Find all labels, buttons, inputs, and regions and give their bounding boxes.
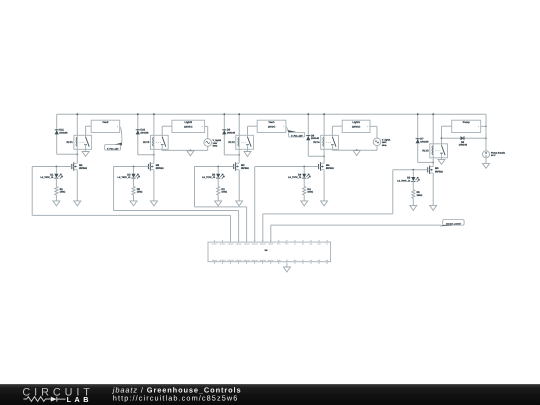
ground relay	[82, 152, 89, 157]
diode D7	[416, 138, 420, 140]
relay RLY1	[74, 135, 92, 149]
wire sensor_power run	[270, 225, 272, 242]
source V_light1	[373, 138, 381, 146]
pin bottom 14 SD	[318, 262, 320, 264]
wire source to ground	[323, 171, 325, 201]
svg-text:D10: D10	[140, 129, 145, 132]
wire relay coil to drain	[238, 149, 240, 162]
svg-text:IRF530: IRF530	[435, 170, 444, 173]
junction	[432, 113, 434, 115]
svg-text:RLY5: RLY5	[422, 150, 429, 153]
ground M4 source	[321, 201, 328, 206]
wire resistor to ground	[217, 195, 219, 201]
wire flyback branch D8	[307, 114, 309, 156]
pin top 10 RTS	[286, 240, 288, 242]
svg-text:sensor_power: sensor_power	[446, 222, 461, 225]
net flag sensor_power	[439, 223, 451, 227]
ground relay	[244, 152, 251, 157]
ground source b2	[187, 151, 194, 156]
wire switch riser to Light2	[162, 125, 172, 127]
pin top 9 RTS	[278, 240, 280, 242]
junction	[153, 113, 155, 115]
wire resistor to ground	[303, 195, 305, 201]
wire led to resistor	[55, 178, 57, 187]
source V_light2	[204, 139, 212, 147]
wire led to resistor	[217, 178, 219, 187]
pin top 11 TX	[294, 240, 296, 242]
svg-text:100Ω: 100Ω	[417, 194, 423, 197]
svg-text:V_light1: V_light1	[382, 139, 391, 142]
junction	[307, 113, 309, 115]
pin bottom 7 GPIO20	[262, 262, 264, 264]
junction	[356, 149, 358, 151]
load Light2	[172, 120, 205, 132]
LED D5	[412, 170, 414, 177]
wire gate net b5	[393, 169, 428, 171]
svg-text:1N4148: 1N4148	[227, 131, 236, 134]
wire resistor to ground b5	[412, 198, 414, 205]
pin bottom 2 GPIO13	[221, 262, 223, 264]
svg-text:120VAC: 120VAC	[184, 126, 193, 129]
wire Light1 to source	[370, 125, 377, 127]
LED D4	[303, 167, 305, 174]
pin bottom 9 GND	[278, 262, 280, 264]
pin top 1 GPIO17	[213, 240, 215, 242]
pin bottom 5 GPIO12	[246, 262, 248, 264]
wire flying lead to flag	[120, 127, 122, 143]
wire relay ground stub	[441, 158, 443, 160]
relay RLY4	[321, 135, 339, 149]
svg-text:RLY2: RLY2	[228, 141, 235, 144]
pin bottom 8 GPIO21	[270, 262, 272, 264]
diode D11	[55, 129, 59, 131]
transistor M2	[147, 164, 149, 169]
diode D10	[136, 129, 140, 131]
wire led to resistor	[303, 178, 305, 187]
wire source to ground	[432, 174, 434, 205]
load Fan2	[91, 120, 120, 132]
junction	[217, 166, 219, 168]
wire gate net	[114, 166, 149, 168]
wire gate net	[195, 166, 234, 168]
svg-text:LS_T67K_J1: LS_T67K_J1	[202, 176, 216, 179]
diode D8	[306, 135, 310, 137]
relay RLY5	[430, 144, 448, 158]
wire right rail	[485, 114, 487, 151]
svg-text:120V: 120V	[213, 142, 218, 145]
wire diode D6 run	[442, 137, 487, 139]
junction	[238, 154, 240, 156]
resistor R5	[412, 190, 415, 199]
svg-text:V_Fan_12V: V_Fan_12V	[107, 147, 119, 150]
svg-text:D11: D11	[59, 129, 64, 132]
svg-text:http://circuitlab.com/c85z5w6: http://circuitlab.com/c85z5w6	[113, 393, 239, 402]
svg-text:100Ω: 100Ω	[137, 191, 143, 194]
wire resistor to ground	[55, 195, 57, 201]
wire mcu ground	[286, 264, 288, 267]
svg-text:120VAC: 120VAC	[352, 126, 361, 129]
pin bottom 12 ID	[302, 262, 304, 264]
svg-text:LS_T67K_J1: LS_T67K_J1	[288, 176, 302, 179]
MCU U6	[208, 242, 331, 262]
wire switch riser to Pump	[441, 126, 443, 144]
ground source b4	[353, 151, 360, 156]
svg-text:100Ω: 100Ω	[307, 191, 313, 194]
wire relay coil to drain	[153, 149, 155, 162]
ground relay b5	[438, 159, 445, 164]
svg-text:V_Fan_12V: V_Fan_12V	[291, 134, 303, 137]
wire coil drop block M3	[238, 114, 240, 135]
pin bottom 3 GPIO19	[230, 262, 232, 264]
wire switch riser to Light1	[332, 125, 342, 127]
pin top 14 SDA	[318, 240, 320, 242]
pin top 7 GPIO25	[262, 240, 264, 242]
wire switch riser to Fan2	[86, 125, 92, 127]
svg-text:Fan2: Fan2	[103, 121, 109, 124]
ground M5 source	[430, 205, 437, 210]
pin top 3 GPIO27	[230, 240, 232, 242]
wire switch to source return	[161, 149, 163, 150]
svg-text:RLY4: RLY4	[313, 141, 320, 144]
wire coil drop block M5	[432, 114, 434, 144]
svg-text:LS_T67K_J1: LS_T67K_J1	[40, 176, 54, 179]
wire switch to source return	[331, 148, 333, 151]
transistor M1	[71, 164, 73, 169]
svg-text:IRF530: IRF530	[79, 167, 88, 170]
ground led	[130, 201, 137, 206]
svg-text:60Hz: 60Hz	[213, 144, 218, 147]
junction	[223, 113, 225, 115]
pin top 13 SCL	[310, 240, 312, 242]
ground M3 source	[236, 201, 243, 206]
wire switch riser	[85, 126, 87, 135]
wire led to resistor b5	[412, 181, 414, 190]
wire relay coil to drain	[76, 149, 78, 162]
svg-text:Pump: Pump	[463, 121, 470, 124]
pin top 4 GPIO22	[238, 240, 240, 242]
wire source to ground	[76, 171, 78, 201]
svg-text:12VDC: 12VDC	[268, 126, 276, 129]
diode D9	[222, 129, 226, 131]
junction	[153, 154, 155, 156]
svg-text:LS_T67K_J1: LS_T67K_J1	[117, 176, 131, 179]
wire switch riser	[331, 126, 333, 135]
junction	[238, 113, 240, 115]
junction	[137, 113, 139, 115]
relay RLY3	[151, 135, 169, 149]
wire switch riser	[161, 126, 163, 135]
junction	[323, 155, 325, 157]
pin top 15 IO	[326, 240, 328, 242]
wire relay coil to drain	[323, 149, 325, 162]
svg-text:1N4148: 1N4148	[59, 131, 68, 134]
junction	[441, 137, 443, 139]
wire resistor to ground	[133, 195, 135, 201]
svg-text:Fan1: Fan1	[269, 121, 275, 124]
svg-text:100Ω: 100Ω	[221, 191, 227, 194]
pin top 2 GPIO18	[221, 240, 223, 242]
wire coil drop block M2	[153, 114, 155, 135]
LED D1	[55, 167, 57, 174]
svg-text:IRF530: IRF530	[241, 167, 250, 170]
wire flyback branch D9	[223, 114, 225, 155]
junction	[133, 166, 135, 168]
pin top 6 GPIO24	[254, 240, 256, 242]
svg-text:Pump Supply: Pump Supply	[491, 151, 506, 154]
wire top supply bus	[57, 113, 486, 115]
ground M1 source	[74, 201, 81, 206]
junction	[56, 166, 58, 168]
svg-text:1N4148: 1N4148	[311, 137, 320, 140]
pin top 5 GPIO23	[246, 240, 248, 242]
resistor R2	[132, 186, 135, 195]
ground led	[301, 201, 308, 206]
ground MCU	[283, 267, 290, 272]
transistor M5	[427, 167, 429, 172]
svg-text:1N4148: 1N4148	[140, 131, 149, 134]
LED D3	[217, 167, 219, 174]
wire Pump to supply rail	[481, 125, 486, 127]
wire relay ground stub	[85, 149, 87, 151]
wire switch riser to Fan1	[248, 125, 258, 127]
junction	[417, 113, 419, 115]
pin bottom 4 GPIO26	[238, 262, 240, 264]
net flag V_Fan_12V b3	[287, 130, 295, 133]
load Light1	[342, 120, 370, 132]
wire flying lead to flag	[286, 127, 288, 130]
wire coil drop block M4	[323, 114, 325, 135]
wire relay ground stub	[247, 149, 249, 151]
load Fan1	[257, 120, 286, 132]
svg-text:RLY3: RLY3	[143, 141, 150, 144]
source Pump Supply	[483, 151, 490, 158]
resistor R4	[303, 186, 306, 195]
LED D2	[133, 167, 135, 174]
junction	[485, 126, 487, 128]
net flag V_Fan_12V b1	[113, 143, 122, 146]
junction	[76, 113, 78, 115]
resistor R1	[55, 186, 58, 195]
wire coil to drain	[432, 158, 434, 166]
pin top 12 RX	[302, 240, 304, 242]
wire gate net	[32, 166, 72, 168]
logo resistor-diode glyph	[23, 397, 50, 402]
pin top 8 GPIO5	[270, 240, 272, 242]
pin bottom 13 SC	[310, 262, 312, 264]
junction	[190, 150, 192, 152]
junction	[432, 162, 434, 164]
resistor R3	[217, 186, 220, 195]
ground M2 source	[150, 201, 157, 206]
ground led	[215, 201, 222, 206]
svg-text:IRF530: IRF530	[156, 167, 165, 170]
svg-text:1N4148: 1N4148	[459, 144, 468, 147]
ground led	[53, 201, 60, 206]
wire switch riser	[247, 126, 249, 135]
svg-text:RLY1: RLY1	[67, 141, 74, 144]
wire source to ground	[153, 171, 155, 201]
svg-text:Light1: Light1	[352, 121, 360, 124]
wire Light2 to source	[205, 125, 208, 127]
junction	[303, 166, 305, 168]
wire gate net	[255, 166, 319, 168]
wire coil drop block M1	[76, 114, 78, 135]
svg-text:60Hz: 60Hz	[382, 144, 387, 147]
pin bottom 11 3V3	[294, 262, 296, 264]
junction	[485, 137, 487, 139]
wire flyback branch D10	[137, 114, 139, 155]
svg-text:LAB: LAB	[67, 395, 92, 404]
wire flyback branch D11	[56, 114, 58, 154]
wire led to resistor	[133, 178, 135, 187]
junction	[323, 113, 325, 115]
ground supply b5	[483, 163, 490, 168]
svg-text:120V: 120V	[382, 141, 387, 144]
load Pump	[452, 120, 481, 132]
diode D6	[461, 136, 465, 140]
wire source to ground	[238, 171, 240, 201]
pin bottom 15 GP	[326, 262, 328, 264]
svg-text:LS_T67K_J1: LS_T67K_J1	[397, 179, 411, 182]
ground led b5	[410, 205, 417, 210]
pin bottom 10 5V	[286, 262, 288, 264]
svg-text:100Ω: 100Ω	[60, 191, 66, 194]
pin bottom 1 GPIO6	[213, 262, 215, 264]
wire flyback branch D7	[417, 114, 419, 162]
junction	[76, 153, 78, 155]
svg-text:Light2: Light2	[185, 121, 193, 124]
transistor M3	[233, 164, 235, 169]
pin bottom 6 GPIO16	[254, 262, 256, 264]
relay RLY2	[236, 135, 254, 149]
svg-text:IRF530: IRF530	[326, 167, 335, 170]
svg-text:24 V: 24 V	[491, 154, 496, 157]
transistor M4	[318, 164, 320, 169]
svg-text:V_light2: V_light2	[213, 139, 222, 142]
svg-text:1N4148: 1N4148	[420, 140, 429, 143]
wire supply to ground	[485, 158, 487, 164]
junction	[412, 169, 414, 171]
